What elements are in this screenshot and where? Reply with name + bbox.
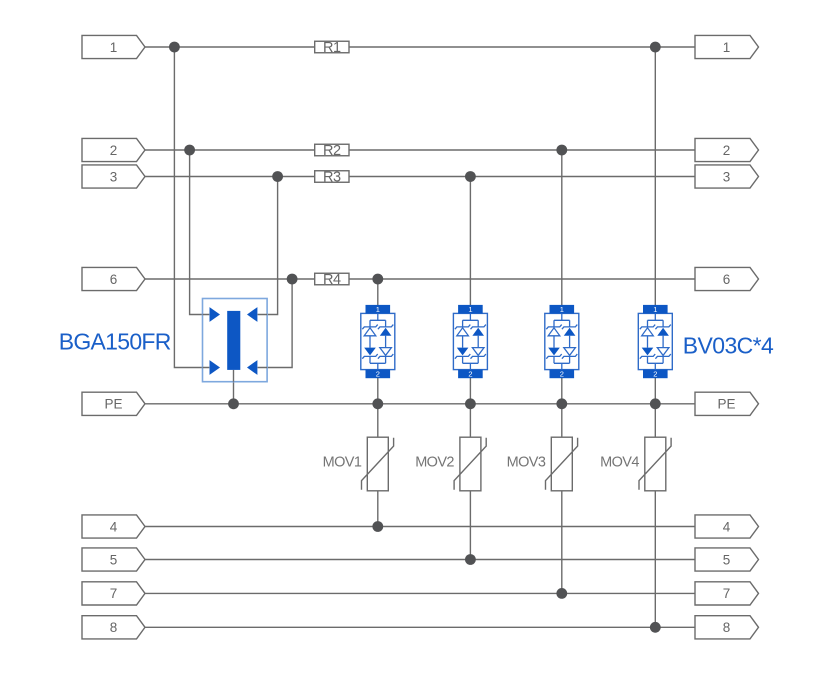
svg-text:R1: R1 <box>323 40 341 56</box>
svg-text:2: 2 <box>723 143 731 158</box>
svg-text:BV03C*4: BV03C*4 <box>683 333 774 359</box>
svg-text:5: 5 <box>723 552 731 567</box>
svg-text:MOV2: MOV2 <box>415 454 454 470</box>
svg-text:1: 1 <box>110 40 118 55</box>
svg-text:BGA150FR: BGA150FR <box>59 328 171 354</box>
svg-text:8: 8 <box>110 620 118 635</box>
svg-text:6: 6 <box>723 272 731 287</box>
svg-text:3: 3 <box>723 169 731 184</box>
svg-text:R2: R2 <box>323 143 341 159</box>
svg-text:1: 1 <box>723 40 731 55</box>
svg-text:R4: R4 <box>323 272 341 288</box>
svg-text:7: 7 <box>110 586 118 601</box>
svg-text:MOV1: MOV1 <box>323 454 362 470</box>
svg-text:6: 6 <box>110 272 118 287</box>
svg-text:MOV4: MOV4 <box>600 454 639 470</box>
svg-text:4: 4 <box>723 519 731 534</box>
svg-text:8: 8 <box>723 620 731 635</box>
svg-text:MOV3: MOV3 <box>507 454 546 470</box>
svg-text:R3: R3 <box>323 170 341 186</box>
svg-text:PE: PE <box>104 397 122 412</box>
svg-text:5: 5 <box>110 552 118 567</box>
svg-text:3: 3 <box>110 169 118 184</box>
svg-text:2: 2 <box>110 143 118 158</box>
svg-text:PE: PE <box>717 397 735 412</box>
svg-text:4: 4 <box>110 519 118 534</box>
svg-text:7: 7 <box>723 586 731 601</box>
